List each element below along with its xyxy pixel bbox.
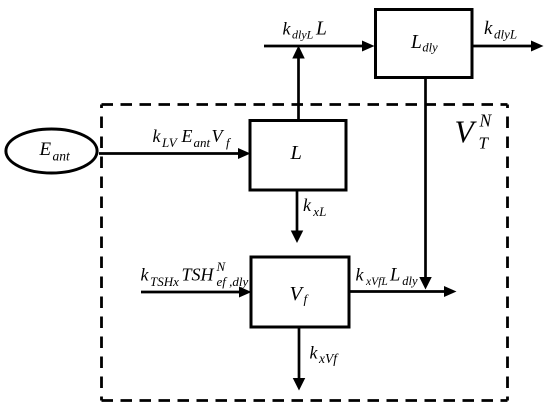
svg-text:k: k: [283, 19, 292, 39]
wire arrow down from L_dly to junction on k_xVfL line: [419, 78, 432, 290]
svg-text:TSH: TSH: [182, 265, 215, 285]
svg-text:k: k: [153, 126, 162, 146]
svg-text:dlyL: dlyL: [494, 27, 517, 42]
svg-text:TSHx: TSHx: [150, 274, 179, 289]
svg-text:k: k: [141, 265, 150, 285]
box L_dly: [376, 10, 473, 78]
svg-text:ant: ant: [194, 135, 211, 150]
svg-text:L: L: [410, 32, 422, 53]
svg-text:k: k: [310, 343, 319, 363]
svg-text:xL: xL: [312, 204, 326, 219]
svg-text:E: E: [39, 139, 52, 160]
svg-text:N: N: [479, 111, 493, 131]
label k_TSHx TSH_ef,dly^N: [141, 259, 249, 289]
label k_dlyL (output): [484, 18, 517, 42]
label k_LV E_ant V_f: [153, 126, 233, 150]
label k_xL: [303, 195, 326, 219]
wire arrow up from L to k_dlyL flux line: [292, 46, 305, 121]
box L: [250, 121, 346, 191]
svg-text:k: k: [484, 18, 493, 39]
svg-text:xVf: xVf: [318, 351, 339, 366]
wire arrow k_xL from L to V_f: [291, 190, 304, 243]
ellipse E_ant: [6, 129, 97, 173]
svg-text:dly: dly: [422, 41, 438, 55]
svg-text:N: N: [216, 259, 227, 274]
svg-text:L: L: [389, 266, 400, 286]
svg-text:xVfL: xVfL: [365, 276, 388, 288]
dashed compartment boundary V_T^N: [102, 105, 508, 401]
wire arrow k_xVfL L_dly out of V_f: [349, 286, 457, 297]
svg-text:E: E: [181, 126, 193, 146]
svg-text:L: L: [290, 142, 302, 164]
svg-text:k: k: [303, 195, 312, 215]
svg-text:dly: dly: [402, 274, 418, 288]
wire arrow k_xVf down out of V_f: [293, 327, 306, 391]
label k_xVf: [310, 343, 340, 367]
label k_dlyL L: [283, 19, 327, 42]
svg-text:dlyL: dlyL: [292, 28, 314, 42]
svg-text:T: T: [479, 134, 490, 153]
wire arrow k_dlyL out of L_dly: [472, 41, 544, 52]
node V_T^N label: [455, 111, 493, 153]
svg-text:LV: LV: [161, 135, 179, 150]
label k_xVfL L_dly: [356, 265, 419, 289]
wire arrow k_TSHx into V_f: [141, 287, 252, 298]
svg-text:ef ,dly: ef ,dly: [217, 274, 249, 289]
box V_f: [251, 257, 349, 327]
svg-text:ant: ant: [53, 149, 72, 164]
svg-text:k: k: [356, 265, 365, 285]
wire arrow k_LV: ellipse to L: [99, 148, 251, 159]
wire arrow k_dlyL L into L_dly: [264, 41, 375, 52]
svg-text:L: L: [315, 19, 327, 40]
